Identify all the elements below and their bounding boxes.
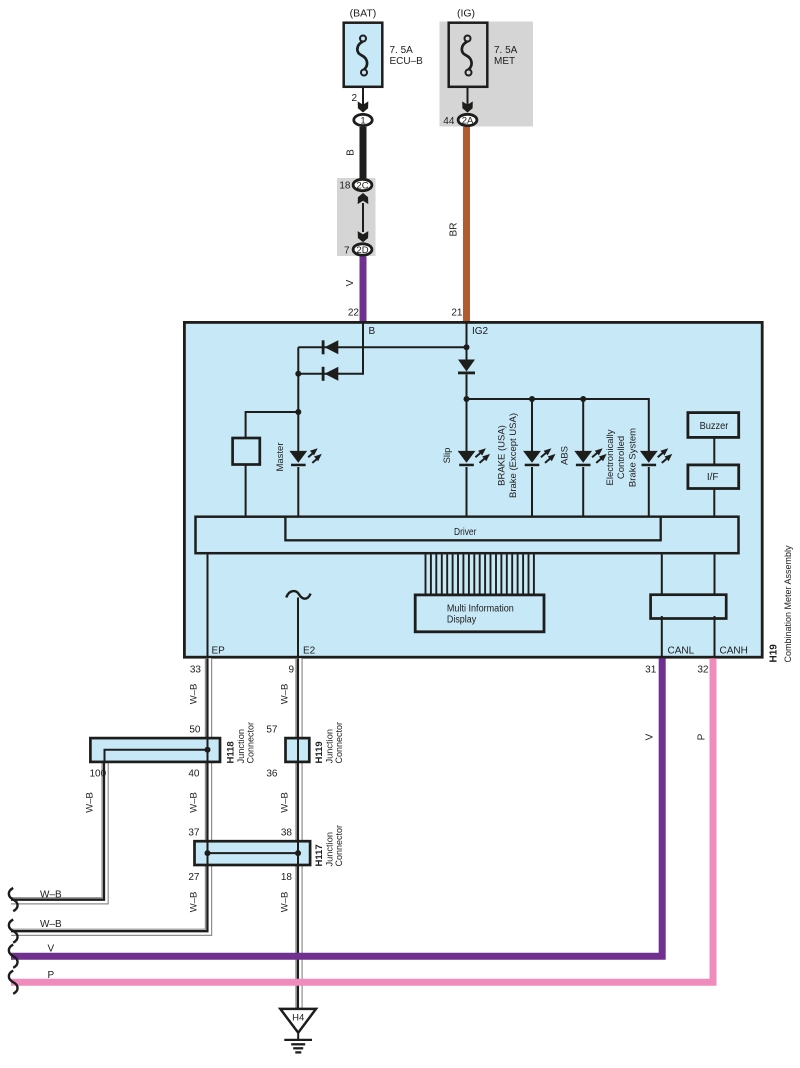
svg-text:Connector: Connector — [334, 722, 345, 764]
svg-text:H117: H117 — [314, 844, 325, 866]
diode D1 upper — [322, 340, 325, 354]
CAN transceiver box — [651, 595, 727, 619]
break squiggle wire P — [9, 971, 18, 994]
svg-text:2C: 2C — [356, 181, 368, 192]
svg-text:Display: Display — [447, 615, 476, 626]
svg-text:W–B: W–B — [280, 792, 291, 813]
svg-text:32: 32 — [697, 665, 709, 676]
LED ABS — [574, 451, 592, 463]
wire lower diode row — [298, 373, 363, 375]
svg-text:33: 33 — [190, 665, 202, 676]
wire between arrows — [362, 203, 364, 232]
wire buzzer to I/F — [713, 437, 715, 466]
svg-text:7. 5A: 7. 5A — [390, 45, 414, 56]
svg-text:2A: 2A — [462, 116, 474, 127]
junction dot IG2/diode row — [464, 344, 470, 350]
svg-text:H19: H19 — [769, 644, 780, 663]
svg-text:Driver: Driver — [454, 527, 477, 538]
wire CANH upper — [714, 555, 716, 595]
wire P (pink) CANH to left edge — [11, 658, 713, 982]
node 1 oval — [354, 114, 372, 125]
svg-text:(BAT): (BAT) — [350, 8, 377, 20]
wire check box to driver — [245, 464, 247, 516]
svg-text:2: 2 — [351, 93, 357, 104]
fuse MET symbol — [462, 41, 472, 69]
svg-text:B: B — [369, 326, 376, 337]
svg-text:50: 50 — [189, 725, 201, 736]
svg-text:V: V — [645, 733, 656, 740]
svg-text:22: 22 — [348, 308, 360, 319]
svg-text:18: 18 — [281, 872, 293, 883]
hatch lines driver to display — [425, 554, 427, 594]
LED Master — [289, 451, 307, 463]
svg-text:H119: H119 — [314, 741, 325, 763]
wire fuse MET to node 2A — [467, 87, 469, 112]
svg-text:CANL: CANL — [668, 646, 695, 657]
svg-text:BRAKE (USA): BRAKE (USA) — [497, 425, 508, 486]
wire V (violet) from 2D to pin 22 — [360, 256, 367, 321]
junction dot bus slip — [464, 396, 470, 402]
svg-text:B: B — [346, 149, 357, 156]
wire slip branch — [466, 399, 468, 452]
break squiggle wire 1 — [9, 888, 18, 911]
svg-text:31: 31 — [645, 665, 657, 676]
svg-text:H4: H4 — [292, 1012, 304, 1023]
svg-text:P: P — [697, 733, 708, 740]
svg-text:Connector: Connector — [334, 825, 345, 867]
junction dot master branch — [295, 409, 301, 415]
fuse ECU-B symbol — [357, 41, 367, 69]
svg-text:W–B: W–B — [40, 919, 62, 930]
svg-text:MET: MET — [494, 56, 515, 67]
svg-text:18: 18 — [339, 181, 351, 192]
svg-text:27: 27 — [188, 872, 200, 883]
driver inner box — [285, 517, 660, 541]
svg-text:Connector: Connector — [246, 722, 257, 764]
Buzzer box — [688, 413, 739, 438]
break squiggle wire V — [9, 945, 18, 968]
junction dot bus abs — [580, 396, 586, 402]
left vertical wire — [297, 347, 299, 452]
wire W-B from H118 pin 100 — [11, 763, 105, 901]
svg-text:W–B: W–B — [85, 792, 96, 813]
pin 21 stub wire — [466, 322, 468, 361]
junction dot bus brake — [529, 396, 535, 402]
break squiggle wire 2 — [9, 920, 18, 943]
arrow up inside 2C/2D connector — [358, 193, 369, 204]
svg-text:ABS: ABS — [560, 446, 571, 465]
svg-text:Combination Meter Assembly: Combination Meter Assembly — [783, 545, 794, 662]
wire B (black) — [360, 127, 367, 178]
H118 internal busbar — [105, 750, 208, 762]
svg-text:BR: BR — [449, 223, 460, 237]
svg-text:37: 37 — [188, 828, 200, 839]
node 2C oval — [353, 179, 372, 190]
pin 22 stub wire — [362, 322, 364, 375]
wire W-B EP branch (33 to H118/H117 then left) — [11, 658, 209, 932]
LED Slip — [458, 451, 476, 463]
connector 2A gray background — [440, 22, 534, 127]
arrow down inside 2C/2D connector — [358, 231, 369, 242]
combination meter assembly box — [184, 322, 762, 657]
wire slip LED to driver — [466, 467, 468, 516]
svg-text:Brake (Except USA): Brake (Except USA) — [508, 413, 519, 498]
svg-text:W–B: W–B — [280, 684, 291, 705]
svg-text:E2: E2 — [303, 646, 316, 657]
svg-text:44: 44 — [443, 116, 455, 127]
ground H4 — [280, 1009, 316, 1033]
wire W-B E2 branch (9 to ground) — [295, 658, 302, 1008]
svg-text:Buzzer: Buzzer — [700, 421, 729, 432]
wire IG2 diode to bus — [466, 374, 468, 399]
svg-text:W–B: W–B — [280, 892, 291, 913]
junction dot diode row — [295, 371, 301, 377]
junction connector H119 box — [286, 738, 310, 762]
LED ECB — [640, 451, 658, 463]
svg-text:W–B: W–B — [40, 890, 62, 901]
diode D3 on IG2 line — [458, 360, 475, 372]
wire CANL lower — [661, 616, 663, 657]
Multi Information Display box — [415, 595, 544, 632]
wire crossings H117 — [207, 841, 209, 865]
wire branch to check box — [246, 412, 299, 438]
svg-text:Controlled: Controlled — [616, 436, 627, 479]
arrow into node 2A — [462, 101, 473, 112]
node 2D oval — [353, 244, 372, 255]
svg-text:V: V — [345, 279, 356, 286]
svg-text:36: 36 — [266, 769, 278, 780]
driver outer box — [196, 517, 739, 554]
wire V (violet) CANL to left edge — [11, 658, 662, 956]
diode D2 lower — [322, 367, 325, 381]
H117 internal busbar — [208, 852, 299, 854]
fuse MET box — [449, 23, 488, 87]
wire abs branch — [582, 399, 584, 452]
svg-text:(IG): (IG) — [457, 8, 475, 20]
svg-text:P: P — [48, 970, 55, 981]
svg-text:V: V — [48, 944, 55, 955]
svg-text:H118: H118 — [226, 741, 237, 763]
svg-text:W–B: W–B — [189, 792, 200, 813]
svg-text:9: 9 — [288, 665, 294, 676]
svg-text:40: 40 — [188, 769, 200, 780]
wire fuse ECU-B to node 1 — [362, 87, 364, 112]
wire EP internal — [207, 555, 209, 658]
svg-text:W–B: W–B — [189, 684, 200, 705]
wire ECB LED to driver — [648, 467, 650, 516]
wire CANL upper — [661, 555, 663, 595]
junction connector H118 box — [90, 738, 220, 762]
wire BR (brown) from 2A to pin 21 — [463, 127, 470, 322]
I/F box — [688, 465, 739, 489]
svg-text:100: 100 — [90, 769, 107, 780]
svg-text:57: 57 — [266, 725, 278, 736]
svg-text:ECU–B: ECU–B — [390, 56, 424, 67]
svg-text:Electronically: Electronically — [605, 429, 616, 485]
bus wire — [467, 399, 649, 452]
wire E2 internal — [297, 598, 299, 658]
svg-text:IG2: IG2 — [472, 326, 489, 337]
svg-text:CANH: CANH — [720, 646, 748, 657]
wire crossing H119 — [297, 738, 299, 762]
wire abs LED to driver — [582, 467, 584, 516]
wire I/F to driver — [713, 489, 715, 517]
wire crossing H118 — [207, 738, 209, 762]
svg-text:Multi Information: Multi Information — [447, 603, 514, 614]
wire CANH lower — [714, 616, 716, 657]
wire upper diode row — [298, 346, 466, 348]
svg-text:38: 38 — [281, 828, 293, 839]
node 2A oval — [458, 114, 477, 125]
wire Master LED to driver — [297, 467, 299, 516]
LED Brake — [523, 451, 541, 463]
break squiggle on E2 line — [286, 591, 310, 599]
svg-text:7: 7 — [344, 246, 350, 257]
connector 2C/2D gray background — [337, 178, 376, 256]
svg-text:W–B: W–B — [189, 892, 200, 913]
fuse ECU-B box — [344, 23, 383, 87]
wire brake branch — [531, 399, 533, 452]
svg-text:2D: 2D — [356, 245, 368, 256]
indicator check box — [233, 438, 260, 465]
svg-text:21: 21 — [451, 308, 463, 319]
svg-text:Brake System: Brake System — [627, 428, 638, 487]
svg-text:1: 1 — [360, 116, 365, 127]
svg-text:Master: Master — [275, 442, 286, 471]
svg-text:Slip: Slip — [442, 448, 453, 464]
arrow into node 1 — [358, 101, 369, 112]
svg-text:I/F: I/F — [707, 472, 719, 483]
junction connector H117 box — [195, 841, 311, 865]
wire brake LED to driver — [531, 467, 533, 516]
svg-text:EP: EP — [212, 646, 226, 657]
svg-text:7. 5A: 7. 5A — [494, 45, 518, 56]
